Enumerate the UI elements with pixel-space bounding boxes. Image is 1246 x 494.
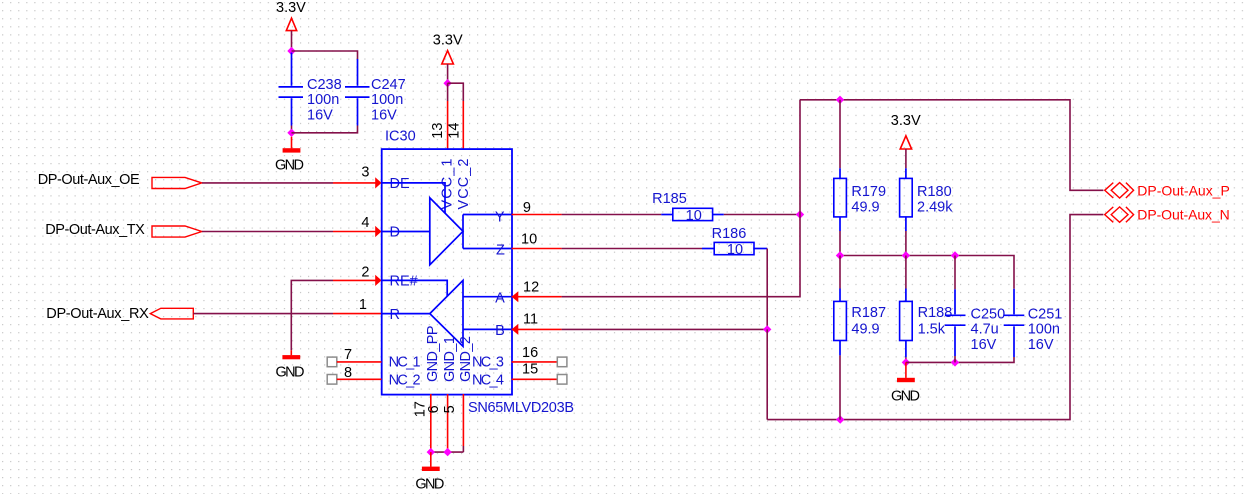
net label DP-Out-Aux_TX [45, 222, 145, 238]
svg-text:3.3V: 3.3V [891, 113, 921, 129]
wire mid rail [840, 256, 1014, 289]
wire R187 top [839, 256, 841, 289]
pin name NC_2 [389, 372, 421, 388]
svg-text:R180: R180 [917, 184, 952, 200]
wire C238 bottom [291, 126, 293, 133]
pin 15 stub and NC square [512, 375, 567, 385]
pin number 9 [523, 200, 531, 216]
svg-text:VCC_2: VCC_2 [456, 159, 472, 210]
net label DP-Out-Aux_RX [46, 306, 149, 322]
ground GND (R188) [891, 362, 920, 404]
RE# enable line [382, 280, 448, 296]
svg-text:C247: C247 [371, 77, 406, 93]
svg-text:DP-Out-Aux_N: DP-Out-Aux_N [1137, 207, 1230, 223]
junction Y/A [796, 210, 804, 218]
svg-text:10: 10 [727, 242, 743, 258]
pin name GND_2 [458, 336, 474, 382]
svg-text:VCC_1: VCC_1 [440, 159, 456, 210]
pin number 8 [344, 365, 352, 381]
DE enable line [382, 183, 446, 213]
svg-text:3.3V: 3.3V [276, 0, 306, 16]
junction top rail / R179 [836, 96, 844, 104]
IC30 designator [385, 128, 416, 144]
pin name NC_4 [472, 372, 504, 388]
junction [287, 129, 295, 137]
wire net DP-Out-Aux_OE [202, 182, 333, 184]
pin number 1 [359, 297, 367, 313]
svg-text:15: 15 [522, 362, 538, 378]
svg-text:4.7u: 4.7u [971, 322, 999, 338]
wire jog to pin 14 [448, 83, 464, 101]
capacitor C250 [945, 289, 1005, 356]
svg-text:A: A [495, 291, 505, 307]
svg-text:SN65MLVD203B: SN65MLVD203B [468, 400, 574, 416]
driver triangle [430, 198, 463, 265]
svg-text:R: R [390, 307, 400, 323]
svg-text:GND_1: GND_1 [442, 336, 458, 382]
pin number 13 [430, 123, 446, 139]
svg-text:11: 11 [523, 312, 538, 328]
svg-text:100n: 100n [307, 92, 339, 108]
pin number 16 [522, 345, 538, 361]
pin 17 wire [430, 394, 432, 452]
pin 11 stub [512, 324, 562, 335]
svg-text:B: B [495, 323, 505, 339]
svg-text:49.9: 49.9 [851, 200, 879, 216]
svg-text:R185: R185 [652, 191, 687, 207]
part number SN65MLVD203B [468, 400, 574, 416]
svg-text:16: 16 [522, 345, 538, 361]
svg-text:100n: 100n [371, 92, 403, 108]
svg-text:C250: C250 [971, 306, 1006, 322]
pin name A [495, 291, 505, 307]
svg-text:D: D [390, 225, 400, 241]
capacitor C247 [345, 59, 406, 126]
svg-text:R186: R186 [712, 226, 747, 242]
wire R180 top [905, 149, 907, 168]
power 3.3V (R180) [891, 113, 921, 149]
wire top rail [800, 100, 1103, 191]
net port DP-Out-Aux_N [1105, 207, 1134, 222]
pin number 2 [361, 264, 369, 280]
pin number 6 [426, 405, 442, 413]
pin number 10 [521, 231, 537, 247]
junction mid/C250 [951, 251, 959, 259]
pin number 4 [361, 215, 369, 231]
power 3.3V (above IC) [433, 32, 463, 64]
svg-text:NC_4: NC_4 [472, 372, 504, 388]
junction R188/GND [902, 358, 910, 366]
pin 13 wire [447, 83, 449, 149]
junction cap rail / C250 [951, 358, 959, 366]
R output line [382, 313, 430, 315]
svg-text:Y: Y [495, 209, 505, 225]
pin 1 stub [333, 313, 382, 315]
wire net RE# [291, 280, 333, 350]
junction B [763, 325, 771, 333]
svg-text:16V: 16V [307, 107, 333, 123]
wire gnd bus [431, 451, 464, 453]
pin 8 NC square and stub [327, 375, 381, 385]
svg-text:GND: GND [415, 477, 444, 493]
connector flag DP-Out-Aux_RX [150, 308, 193, 319]
wire net Y [562, 214, 662, 216]
svg-text:7: 7 [344, 347, 352, 363]
wire R180 bottom [905, 231, 907, 256]
pin 6 wire [447, 394, 449, 452]
wire net DP-Out-Aux_RX [193, 313, 333, 315]
svg-text:10: 10 [686, 208, 702, 224]
pin 7 NC square and stub [327, 357, 381, 367]
wire R188 top [905, 256, 907, 289]
svg-text:RE#: RE# [390, 274, 418, 290]
svg-text:1: 1 [359, 297, 367, 313]
pin 3 stub [333, 177, 382, 188]
svg-text:GND: GND [275, 158, 304, 174]
svg-text:2: 2 [361, 264, 369, 280]
wire R186 down to B [766, 249, 768, 330]
svg-text:R188: R188 [918, 305, 953, 321]
net label DP-Out-Aux_N [1137, 207, 1230, 223]
svg-text:C251: C251 [1028, 306, 1063, 322]
pin name B [495, 323, 505, 339]
svg-text:IC30: IC30 [385, 128, 416, 144]
pin 2 stub [333, 275, 382, 286]
wire cap rail [906, 357, 1014, 362]
svg-text:8: 8 [344, 365, 352, 381]
connector flag DP-Out-Aux_TX [152, 226, 202, 237]
svg-text:6: 6 [426, 405, 442, 413]
pin 10 stub [512, 248, 562, 250]
wire net A [562, 100, 800, 297]
wire R179 top [839, 100, 841, 169]
junction bottom rail / R187 [836, 415, 844, 423]
wire bottom rail [767, 215, 1103, 420]
svg-text:GND_2: GND_2 [458, 336, 474, 382]
svg-text:NC_1: NC_1 [389, 355, 421, 371]
pin 9 stub [512, 214, 562, 216]
pin 5 wire [462, 394, 464, 452]
wire C250 top [954, 256, 956, 290]
pin 16 stub and NC square [512, 357, 567, 367]
connector flag DP-Out-Aux_OE [152, 177, 202, 188]
junction [287, 47, 295, 55]
junction [443, 79, 451, 87]
pin name D [390, 225, 400, 241]
svg-text:GND: GND [276, 364, 305, 380]
pin number 7 [344, 347, 352, 363]
resistor R185 [652, 191, 724, 224]
pin number 5 [442, 405, 458, 413]
pin 4 stub [333, 226, 382, 237]
pin name R [390, 307, 400, 323]
pin name GND_PP [425, 326, 441, 383]
ground GND (left) [276, 350, 305, 380]
wire supply1 to C247 [292, 51, 358, 59]
D input line [382, 231, 430, 233]
svg-text:1.5k: 1.5k [918, 322, 946, 338]
pin number 11 [523, 312, 538, 328]
wire supply2 [447, 64, 449, 83]
wire B down [766, 329, 768, 419]
resistor R180 [900, 168, 954, 231]
svg-text:49.9: 49.9 [851, 322, 879, 338]
net label DP-Out-Aux_P [1137, 182, 1230, 198]
pin number 12 [523, 280, 539, 296]
svg-text:DP-Out-Aux_P: DP-Out-Aux_P [1137, 182, 1230, 198]
wire net B [562, 328, 768, 330]
pin number 3 [361, 164, 369, 180]
net port DP-Out-Aux_P [1105, 183, 1134, 198]
pin number 15 [522, 362, 538, 378]
receiver input lines A B [463, 297, 512, 330]
wire R179 bottom [839, 231, 841, 256]
svg-text:R179: R179 [851, 184, 886, 200]
net label DP-Out-Aux_OE [38, 172, 140, 188]
junction [427, 448, 435, 456]
junction [443, 448, 451, 456]
resistor R179 [834, 168, 886, 231]
pin name Z [496, 242, 505, 258]
svg-text:16V: 16V [371, 107, 397, 123]
resistor R187 [834, 289, 886, 356]
svg-text:DP-Out-Aux_TX: DP-Out-Aux_TX [45, 222, 145, 238]
pin name VCC_1 [440, 159, 456, 210]
pin name DE [390, 176, 410, 192]
pin name GND_1 [442, 336, 458, 382]
svg-text:13: 13 [430, 123, 446, 139]
pin name NC_3 [472, 355, 504, 371]
power 3.3V (top-left) [276, 0, 306, 31]
wire net Z [562, 248, 702, 250]
svg-text:DP-Out-Aux_OE: DP-Out-Aux_OE [38, 172, 140, 188]
capacitor C251 [1004, 289, 1063, 357]
svg-text:2.49k: 2.49k [917, 200, 953, 216]
svg-text:NC_3: NC_3 [472, 355, 504, 371]
pin number 14 [447, 123, 463, 139]
junction mid/R179 [836, 251, 844, 259]
svg-text:R187: R187 [851, 305, 886, 321]
pin name VCC_2 [456, 159, 472, 210]
svg-text:Z: Z [496, 242, 505, 258]
pin 14 wire [462, 101, 464, 149]
svg-text:100n: 100n [1028, 322, 1060, 338]
junction mid/R180 [902, 251, 910, 259]
svg-text:16V: 16V [1028, 337, 1054, 353]
svg-text:12: 12 [523, 280, 539, 296]
driver output lines Y Z [463, 215, 512, 249]
wire R188 bottom [905, 357, 907, 362]
wire C238 to C247 bottom [292, 126, 358, 133]
pin 12 stub [512, 291, 562, 302]
wire R187 bottom [839, 355, 841, 419]
wire net DP-Out-Aux_TX [202, 231, 333, 233]
svg-text:3: 3 [361, 164, 369, 180]
pin name RE# [390, 274, 418, 290]
svg-text:C238: C238 [307, 77, 342, 93]
resistor R186 [702, 226, 767, 258]
op-amp IC30 body [382, 149, 512, 395]
wire supply1 [291, 31, 293, 51]
svg-text:10: 10 [521, 231, 537, 247]
svg-text:16V: 16V [971, 337, 997, 353]
pin number 17 [413, 401, 429, 417]
wire net Y to junction [724, 214, 800, 216]
svg-text:GND: GND [891, 389, 920, 405]
svg-text:3.3V: 3.3V [433, 32, 463, 48]
svg-text:5: 5 [442, 405, 458, 413]
svg-text:DE: DE [390, 176, 410, 192]
wire C250 bottom [954, 356, 956, 362]
capacitor C238 [279, 53, 342, 126]
pin name Y [495, 209, 505, 225]
ground GND (IC) [415, 452, 444, 493]
resistor R188 [900, 289, 953, 358]
svg-text:4: 4 [361, 215, 369, 231]
svg-text:GND_PP: GND_PP [425, 326, 441, 383]
svg-text:14: 14 [447, 123, 463, 139]
pin name NC_1 [389, 355, 421, 371]
svg-text:DP-Out-Aux_RX: DP-Out-Aux_RX [46, 306, 149, 322]
ground GND (top-left) [275, 137, 304, 174]
receiver triangle [430, 280, 463, 346]
svg-text:9: 9 [523, 200, 531, 216]
svg-text:NC_2: NC_2 [389, 372, 421, 388]
